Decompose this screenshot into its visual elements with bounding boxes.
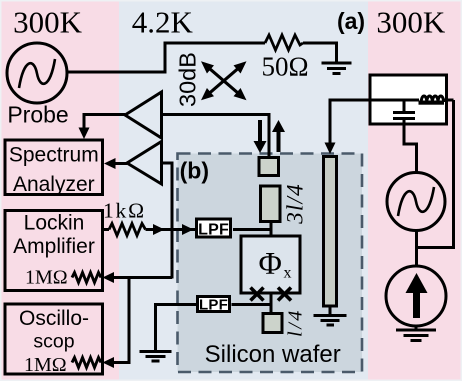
svg-text:(a): (a): [337, 8, 365, 34]
wire LPF2 to squid bottom: [232, 303, 272, 306]
svg-text:3l/4: 3l/4: [283, 183, 308, 225]
bias tee through wire: [370, 99, 419, 102]
arrowhead into spectrum analyzer top: [79, 128, 90, 140]
signal in arrow down: [254, 120, 267, 153]
wire amp A1 output to spectrum analyzer: [84, 115, 125, 129]
wire probe to top line: [68, 43, 266, 72]
signal out arrow up: [272, 120, 285, 152]
bias tee box: [370, 75, 447, 124]
region background middle 4.2K cryostat zone: [119, 0, 368, 381]
arrowhead into oscilloscope 1Mohm: [103, 357, 115, 368]
arrowhead into LPF1: [182, 224, 194, 235]
arrowhead into lockin 1Mohm: [103, 272, 115, 283]
svg-text:Lockin: Lockin: [24, 212, 85, 235]
wire LPF1 to squid top: [233, 228, 271, 231]
inductor L1 coil: [419, 101, 445, 105]
arrowhead into antenna top: [325, 143, 336, 155]
wire amp A2 input riser: [162, 163, 173, 279]
wire capacitor to RF source: [404, 120, 417, 172]
svg-text:scop: scop: [33, 331, 74, 353]
svg-text:Oscillo-: Oscillo-: [19, 307, 89, 330]
amplifier A2 lower triangle: [127, 142, 162, 185]
wire junction to lockin 1Mohm: [114, 276, 172, 279]
ground for current source: [415, 326, 418, 329]
svg-text:(b): (b): [180, 158, 209, 184]
resistor 1Mohm oscilloscope zigzag: [72, 358, 101, 368]
svg-text:Φ: Φ: [259, 245, 282, 281]
region background right 300K zone: [368, 0, 462, 381]
resistor 1Mohm lockin zigzag: [72, 273, 101, 283]
wire amp A1 input from coupler: [162, 115, 270, 157]
svg-text:4.2K: 4.2K: [132, 5, 194, 40]
LPF1 box: [197, 219, 231, 237]
svg-text:LPF: LPF: [199, 297, 228, 314]
svg-text:1MΩ: 1MΩ: [25, 267, 68, 289]
ground for antenna: [329, 308, 332, 315]
svg-text:Amplifier: Amplifier: [13, 235, 95, 258]
wire squid bottom to quarter-wave stub: [270, 295, 273, 313]
RF source circle: [387, 173, 445, 231]
quarter-wave stub pad l/4: [263, 314, 282, 333]
arrowhead into spectrum analyzer right: [104, 158, 116, 169]
wire 1kohm to LPF1: [146, 228, 196, 231]
RF source sine wave: [398, 187, 434, 216]
resistor 1kohm zigzag: [109, 224, 146, 236]
josephson junction X2: [278, 288, 291, 301]
oscilloscope box: [5, 304, 103, 374]
svg-text:30dB: 30dB: [175, 52, 201, 107]
wire resistor to ground: [303, 43, 337, 62]
amplifier A1 upper triangle: [125, 92, 162, 138]
silicon wafer dashed box (b): [178, 154, 363, 373]
wire inductor to box edge: [443, 99, 454, 102]
spectrum analyzer box: [5, 140, 103, 195]
lockin amplifier box: [5, 211, 103, 291]
svg-text:300K: 300K: [376, 5, 446, 40]
svg-text:1kΩ: 1kΩ: [103, 199, 146, 223]
svg-text:300K: 300K: [13, 5, 83, 40]
wire RF source to current source: [415, 231, 418, 267]
svg-text:Silicon wafer: Silicon wafer: [205, 341, 341, 368]
svg-text:Spectrum: Spectrum: [9, 144, 99, 167]
wire LPF2 to ground: [156, 305, 197, 351]
arrowhead on wire before junction: [153, 224, 165, 235]
coupler antenna bar: [324, 157, 337, 307]
wire resonator segment to squid loop: [270, 222, 273, 235]
probe source circle P1: [7, 43, 67, 103]
wire lockin 1kohm output: [104, 228, 109, 231]
region background left 300K cryostat zone: [0, 0, 119, 381]
resistor 50ohm zigzag: [265, 35, 303, 50]
svg-text:Analyzer: Analyzer: [13, 173, 95, 196]
svg-text:LPF: LPF: [198, 222, 229, 239]
ground for 50ohm: [322, 63, 352, 74]
svg-text:x: x: [284, 265, 292, 282]
resonator segment 3l/4: [261, 186, 281, 222]
wire bias tee to antenna: [330, 100, 370, 143]
josephson junction X1: [251, 288, 264, 301]
wire amp A2 output to spectrum analyzer right: [114, 162, 127, 165]
svg-text:1MΩ: 1MΩ: [24, 354, 67, 376]
svg-text:50Ω: 50Ω: [261, 52, 308, 82]
wire branch down to oscilloscope: [114, 278, 129, 363]
probe sine wave: [19, 59, 55, 88]
coupling capacitor pad: [259, 158, 279, 176]
crossed arrows symbol: [204, 64, 244, 98]
capacitor C1: [403, 100, 406, 111]
LPF2 box: [198, 297, 230, 312]
squid loop box phi-x: [241, 236, 300, 293]
svg-text:l/4: l/4: [285, 308, 307, 337]
ground for LPF2: [140, 352, 172, 362]
current source circle: [386, 266, 446, 326]
wire bias tee right to current source: [417, 100, 454, 248]
current source arrow: [413, 293, 420, 318]
svg-text:Probe: Probe: [7, 102, 68, 128]
